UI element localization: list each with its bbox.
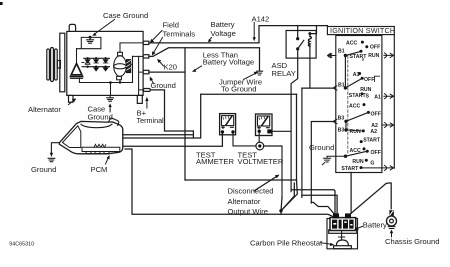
carbon pile rheostat [334, 231, 352, 249]
alternator left foot [69, 95, 74, 102]
PCM connector strip [82, 147, 120, 153]
svg-text:Ground: Ground [309, 143, 334, 152]
internal case ground symbol [87, 36, 94, 43]
svg-text:VOLTMETER: VOLTMETER [238, 157, 284, 166]
bank3 left arrow [334, 119, 337, 123]
wire brush-side vertical [131, 56, 133, 82]
long PCM bottom wire to battery [125, 149, 334, 217]
brush block [126, 60, 130, 73]
bottom case ground arrow [109, 106, 111, 112]
wire relay coil down to B1 junction [309, 44, 311, 88]
wire B3 feed [311, 122, 334, 204]
junction dot rotor stem [119, 81, 121, 83]
chassis bolt [389, 210, 393, 216]
disconnected label arrow [254, 177, 277, 192]
dashed linkage line [347, 56, 349, 154]
B+ terminal tab [143, 89, 150, 92]
wire PCM pin 1 [123, 131, 194, 138]
wire inner right vertical [139, 56, 144, 95]
PCM ground symbol [48, 158, 55, 161]
PCM ground wire [51, 143, 59, 153]
alternator front plate [60, 33, 65, 92]
A142 arrow [253, 23, 255, 39]
wire bundle from connector drop [281, 198, 282, 211]
wire ground terminal to left vertical [149, 71, 185, 73]
knot junction [279, 209, 282, 212]
svg-text:A1: A1 [374, 94, 381, 100]
wire connector to right drop [264, 146, 282, 198]
alternator top mounting tab [69, 24, 75, 31]
relay switch contacts [296, 37, 299, 40]
svg-text:A1: A1 [353, 72, 360, 78]
svg-text:START: START [363, 137, 381, 143]
svg-text:OFF: OFF [371, 111, 381, 117]
rotor middle band [114, 64, 127, 69]
svg-text:PCM: PCM [91, 165, 108, 174]
ASD relay box [286, 31, 316, 59]
bank4 ground wire [327, 156, 346, 158]
scan artifact top-left [0, 2, 3, 5]
wire ground loop top [77, 37, 101, 48]
svg-text:Alternator: Alternator [228, 197, 261, 206]
wire bundle diagonal 1 [281, 180, 297, 211]
jumper wire label arrow [244, 73, 256, 79]
PCM label arrow [106, 158, 109, 165]
wire brush to field terminal 2 [133, 55, 144, 57]
test box top edge [201, 93, 297, 95]
svg-text:S: S [366, 94, 370, 100]
relay coil top dot [308, 32, 311, 35]
diode D3 [103, 60, 108, 63]
test ammeter [220, 114, 236, 135]
rheostat enclosure box [327, 219, 358, 249]
diode D5 [94, 68, 99, 71]
svg-text:Ground: Ground [151, 81, 176, 90]
battery body [330, 218, 356, 231]
wire B3 vertical to battery post [311, 202, 334, 213]
rheostat label arrow [321, 243, 331, 245]
wire delta to bridge [77, 49, 84, 63]
svg-text:G: G [370, 160, 374, 166]
PCM nose inner line [63, 126, 81, 148]
battery label arrow [357, 226, 363, 228]
battery base plate [329, 230, 357, 233]
battery voltage label arrow [209, 38, 212, 41]
svg-text:B3: B3 [338, 115, 345, 121]
svg-text:IGNITION SWITCH: IGNITION SWITCH [330, 26, 395, 35]
wire PCM pin 2 [123, 94, 201, 138]
svg-text:Terminals: Terminals [163, 30, 196, 39]
diode bridge rails [82, 58, 110, 66]
bank4 contacts and lever [344, 147, 369, 169]
wire coil top to A142 line [310, 26, 317, 37]
wire PCM low pin to ammeter plus [123, 134, 223, 147]
svg-text:Battery Voltage: Battery Voltage [203, 57, 255, 66]
rotor bottom slip ring [117, 76, 122, 80]
svg-text:A142: A142 [252, 14, 270, 23]
svg-text:ACC: ACC [350, 148, 361, 154]
wire rotor top to field terminal 1 [120, 43, 143, 52]
bank4 START output arrow [363, 165, 394, 170]
svg-text:START: START [341, 166, 359, 172]
svg-text:OFF: OFF [370, 44, 380, 50]
svg-text:START: START [349, 93, 367, 99]
bank1 output arrow to rail [384, 53, 394, 58]
wire bundle diagonal 2 [281, 183, 294, 211]
svg-text:Case Ground: Case Ground [103, 11, 148, 20]
ignition switch label box [327, 27, 394, 35]
wire coil vertical to battery post [302, 195, 337, 213]
stator delta winding [70, 56, 82, 79]
svg-text:Output Wire: Output Wire [228, 207, 269, 216]
battery cells [332, 220, 354, 229]
wire rotor bottom loop [79, 78, 132, 95]
wire B+ terminal run [150, 90, 193, 131]
rotor body [114, 56, 127, 77]
svg-text:B1: B1 [338, 83, 345, 89]
field terminal tab 2 (K20) [143, 55, 149, 58]
svg-text:A2: A2 [370, 129, 377, 135]
alternator body [67, 31, 143, 95]
rotor top slip ring [118, 52, 123, 56]
bank1 left arrow stub [328, 53, 336, 57]
diode D6 [103, 68, 108, 71]
wire A142 drop to relay switch [297, 26, 299, 37]
ignition right feed rail [393, 35, 395, 169]
bank3 output arrow A2 [382, 123, 394, 128]
alternator label arrow [69, 100, 75, 104]
svg-text:B3: B3 [338, 127, 345, 133]
inline connector [256, 142, 264, 150]
ground terminal label arrow [151, 79, 154, 84]
wire relay switch down long [291, 51, 298, 192]
wire battery minus to chassis ground [351, 183, 391, 213]
svg-text:RELAY: RELAY [272, 69, 296, 78]
svg-text:Voltage: Voltage [211, 29, 236, 38]
wire voltmeter plus to connector [258, 133, 260, 142]
svg-text:94C65310: 94C65310 [9, 242, 34, 248]
bank1 contacts and lever [344, 41, 369, 61]
relay switch lever [298, 40, 304, 49]
wire coil junction down to battery [301, 88, 303, 197]
case ground label arrow [95, 20, 115, 34]
PCM top-right hump [109, 118, 119, 125]
svg-text:K20: K20 [164, 62, 178, 71]
relay coil [308, 36, 311, 46]
wire B1 row2 feed [302, 87, 334, 89]
svg-text:OFF: OFF [364, 77, 374, 83]
bottom case ground symbol [107, 95, 114, 101]
ignition switch body box [336, 36, 382, 173]
svg-text:START: START [350, 54, 368, 60]
svg-text:RUN: RUN [368, 53, 379, 59]
PCM internal squiggle [94, 144, 106, 147]
wire field terminal 2 K20 less-than-battery-voltage [149, 48, 260, 71]
less than battery voltage label arrow [195, 66, 202, 70]
svg-text:Disconnected: Disconnected [228, 186, 274, 195]
K20 label arrow [159, 61, 164, 66]
diode D2 [94, 60, 99, 63]
test box right edge [296, 94, 298, 180]
PCM top saddle line [81, 124, 112, 128]
junction dot rotor bottom [109, 81, 112, 84]
svg-text:Field: Field [163, 21, 179, 30]
chassis ground symbol [388, 227, 395, 229]
wire field terminal 1 / battery voltage / A142 feed [149, 26, 328, 43]
ground terminal tab 3 [143, 70, 149, 74]
svg-text:Battery: Battery [363, 221, 387, 230]
alternator pulley [47, 48, 61, 82]
diode D4 [85, 61, 90, 64]
bank2 output arrow A1 [384, 94, 394, 99]
long left vertical wire (test box left edge) [184, 48, 186, 180]
knot stub to bottom wire [280, 211, 282, 215]
field terminals arrows [152, 31, 162, 53]
PCM ground arrowhead [50, 153, 53, 157]
field terminal tab 1 [143, 41, 149, 44]
wire ignition bottom to battery right post [350, 173, 352, 214]
svg-text:RUN: RUN [350, 129, 361, 135]
svg-text:RUN: RUN [352, 159, 363, 165]
battery post left [333, 213, 339, 218]
wire relay vertical to battery post [291, 190, 335, 214]
svg-text:Ground: Ground [88, 112, 113, 121]
bank4 ground symbol [322, 158, 330, 165]
svg-text:Terminal: Terminal [137, 116, 165, 125]
svg-text:OFF: OFF [371, 150, 381, 156]
bridge junction dots [86, 57, 106, 68]
wire voltmeter minus to relay vertical [272, 130, 291, 132]
test voltmeter [256, 114, 273, 136]
PCM body [59, 121, 122, 153]
svg-text:Carbon Pile Rheostat: Carbon Pile Rheostat [250, 238, 323, 247]
svg-text:To Ground: To Ground [221, 85, 256, 94]
svg-text:B1: B1 [338, 48, 345, 54]
B1 bus vertical [344, 56, 346, 88]
jumper wire ground symbol [256, 71, 262, 75]
chassis washer [387, 216, 397, 226]
svg-text:Alternator: Alternator [28, 105, 61, 114]
diode D1 [85, 60, 90, 63]
svg-text:ACC: ACC [346, 40, 357, 46]
bank2 left arrow [334, 86, 337, 90]
B+ terminal label arrow [146, 100, 148, 108]
alternator right foot [137, 95, 142, 103]
battery post right [345, 213, 351, 218]
svg-text:ACC: ACC [349, 103, 360, 109]
svg-text:Chassis Ground: Chassis Ground [385, 237, 439, 246]
svg-text:AMMETER: AMMETER [196, 157, 234, 166]
bank3 contacts and lever [344, 103, 370, 143]
test box bottom edge [185, 179, 297, 181]
wire ammeter minus to connector [233, 134, 256, 146]
svg-text:Ground: Ground [31, 165, 56, 174]
bank2 contacts and lever [344, 72, 380, 95]
